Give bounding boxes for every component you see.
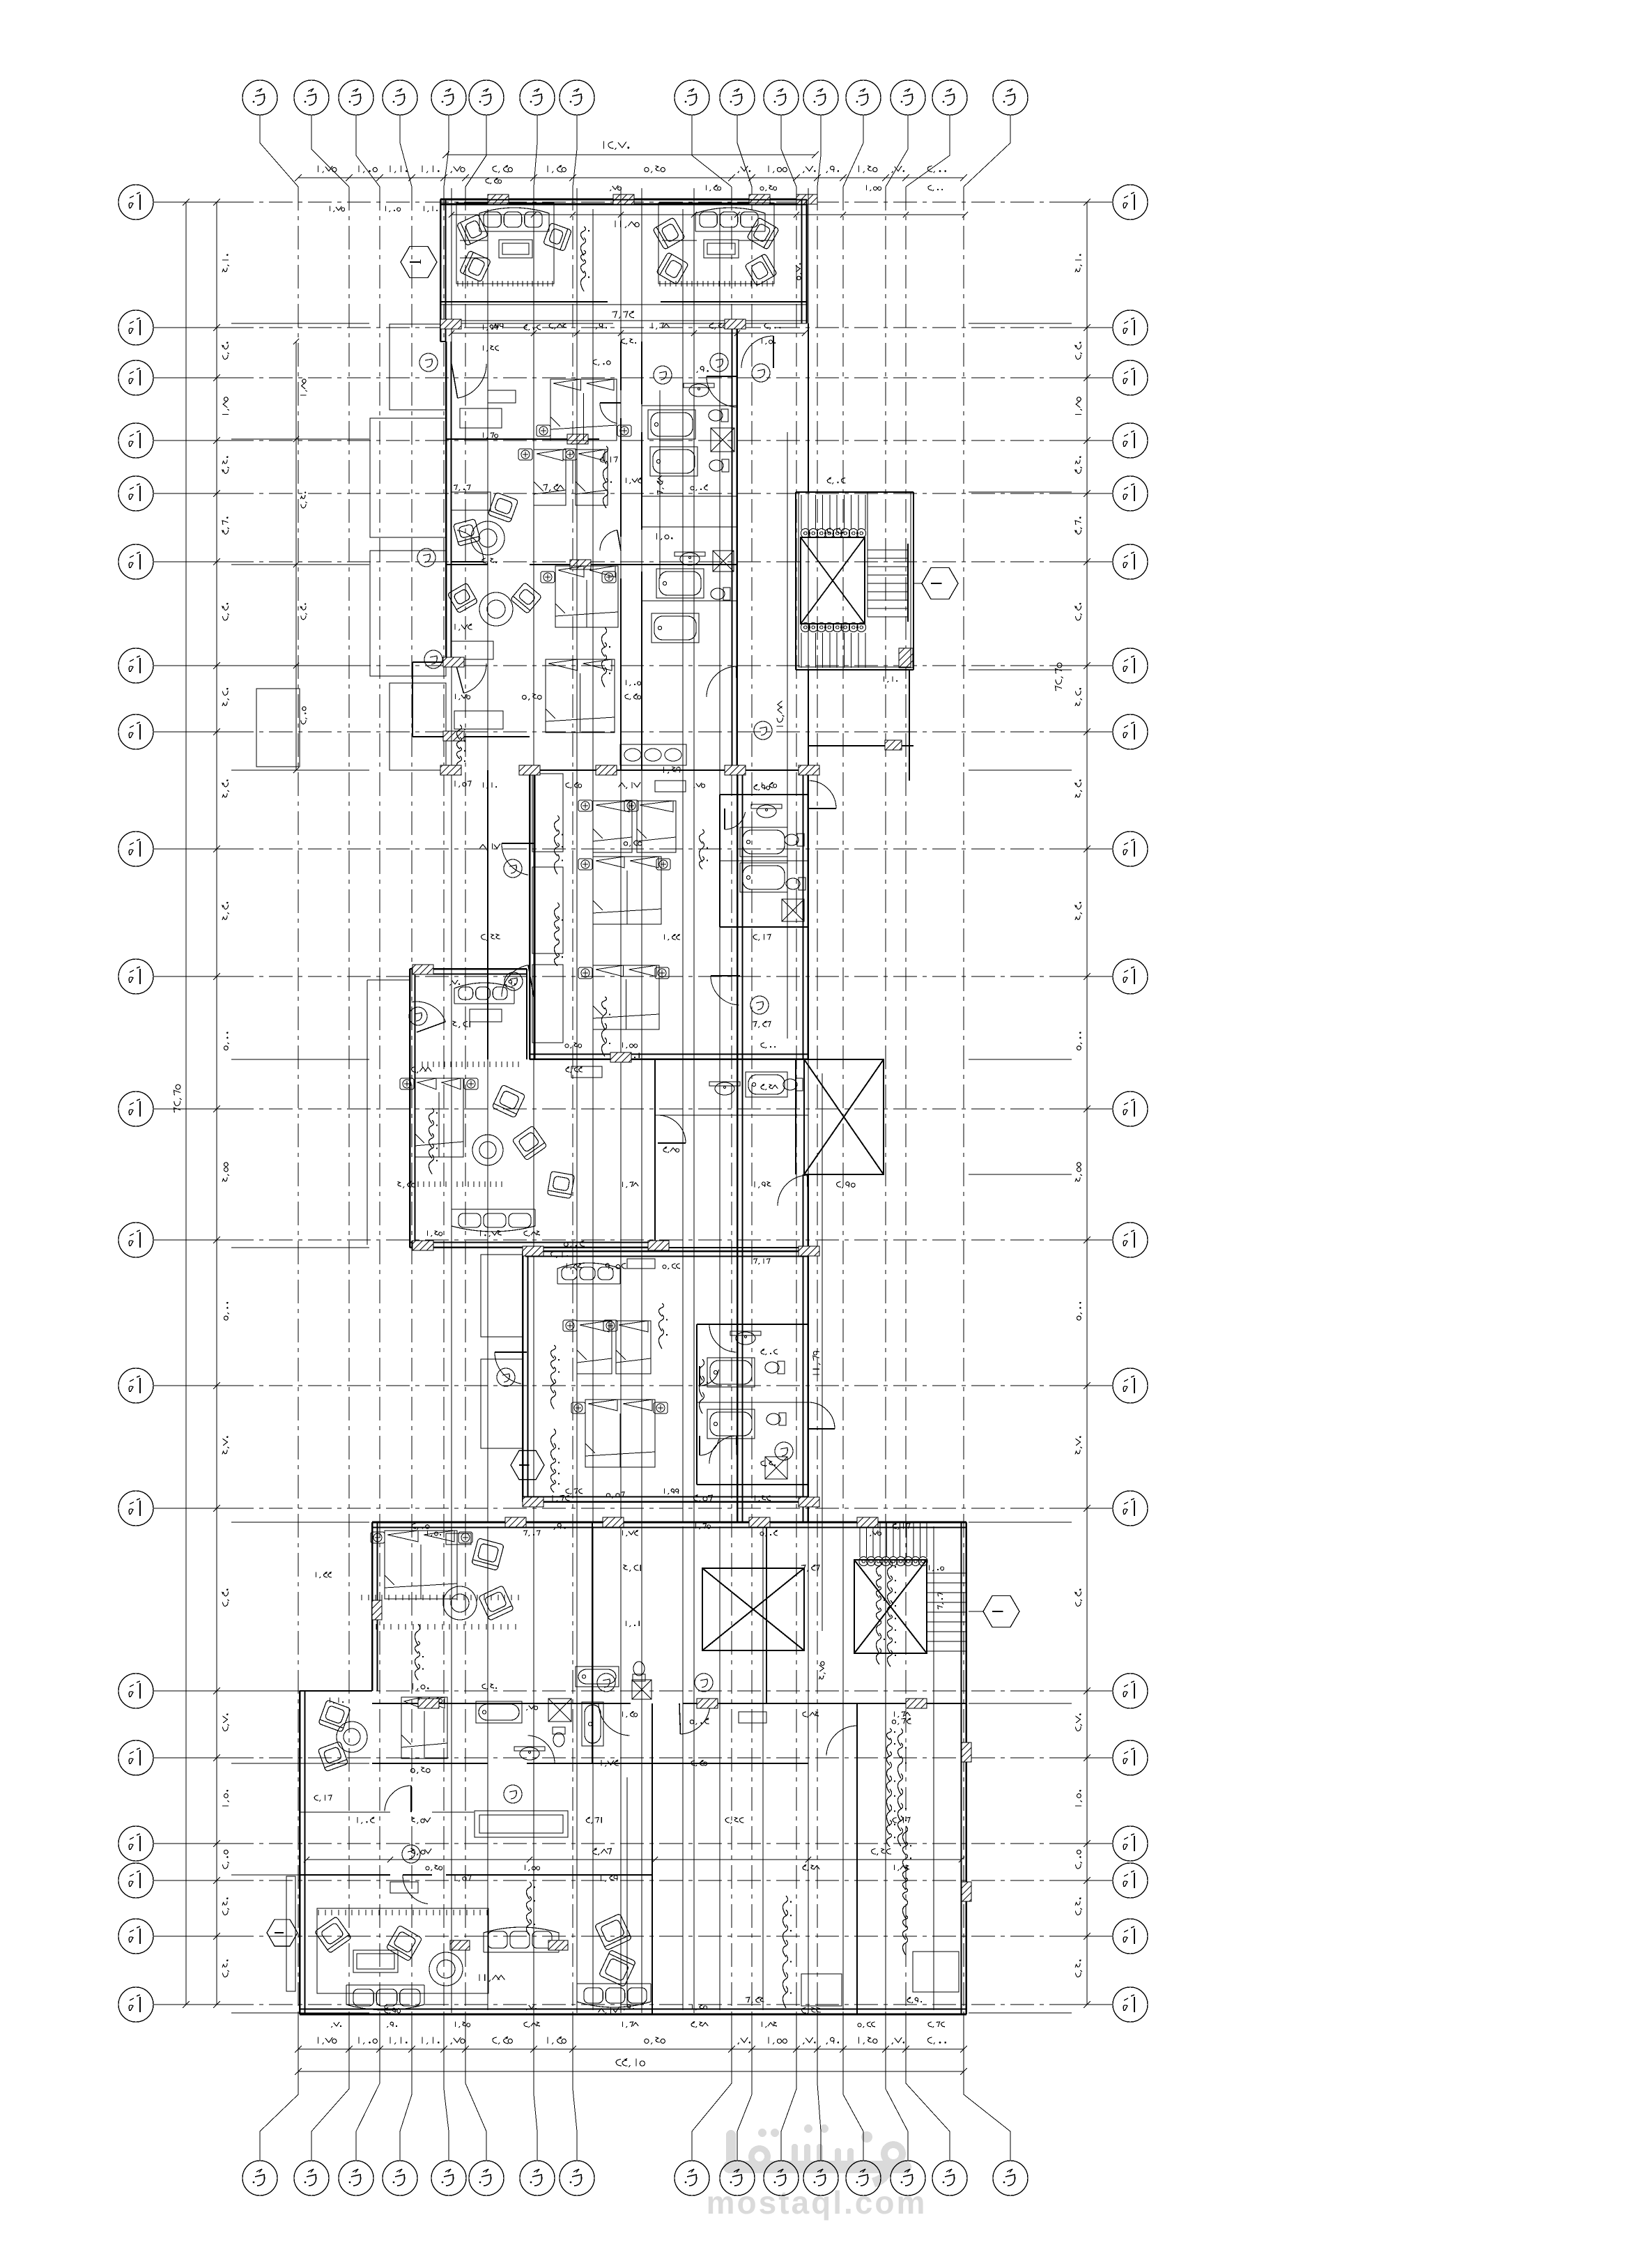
leader line top 7 <box>534 115 537 187</box>
bottom left balcony outline <box>286 1876 295 1991</box>
bottom majlis sofa mid <box>484 1927 559 1952</box>
bottom corridor dim row2 <box>357 1817 374 1824</box>
axis bubble left 18 <box>118 1863 153 1898</box>
top dim label 1,75 <box>318 165 337 173</box>
axis bubble left 9 <box>118 832 153 866</box>
left inner dim 2,05 <box>301 707 307 724</box>
axis bubble left 13 <box>118 1368 153 1403</box>
axis bubble left 6 <box>118 544 153 579</box>
leader line bottom 11 <box>781 2016 796 2161</box>
leader line top 15 <box>906 115 950 187</box>
bottom corridor dim 2,42 <box>872 1848 891 1855</box>
twin2 toilet b <box>766 1413 786 1425</box>
right dim label 4,10 <box>1075 254 1082 272</box>
axis bubble bottom 10 <box>720 2161 755 2196</box>
bottom bath3 tub top <box>576 1666 619 1687</box>
right dim label 4,30 <box>1075 779 1082 797</box>
bottom stair hatch treads <box>860 1522 927 1557</box>
wing2 terrace outline <box>367 979 410 981</box>
grid line vertical 4 <box>411 187 413 2016</box>
corridor door top <box>741 336 773 368</box>
axis bubble bottom 4 <box>383 2161 417 2196</box>
top overall dimension 12,70 <box>442 151 819 158</box>
axis bubble right 20 <box>1113 1987 1148 2022</box>
suite doortag3 <box>424 650 442 668</box>
middle dim 5,25 <box>624 841 642 847</box>
bottom corridor wall y2690 <box>300 1874 652 1876</box>
axis bubble right 4 <box>1113 423 1148 458</box>
corridor spine wall left <box>737 323 738 1522</box>
bottom majlis armchair d <box>599 1949 635 1986</box>
bath1 tub <box>648 410 695 439</box>
bottom dim label ,70 <box>892 2037 904 2044</box>
right dim label 2,30 <box>1075 342 1082 359</box>
bottom majlis sofa left <box>346 1985 424 2010</box>
right dim label 2,40 <box>1075 1897 1082 1915</box>
suite bath partitions <box>642 406 737 601</box>
bath1 tub2 <box>650 447 697 476</box>
twin bed left <box>534 450 566 505</box>
leader line top 13 <box>843 115 863 187</box>
grid line vertical 6 <box>465 187 466 2016</box>
twin2 side tables <box>563 1320 577 1331</box>
double outer walls overlay <box>300 199 966 2014</box>
right dim label 2,40 <box>1075 1959 1082 1977</box>
axis bubble right 2 <box>1113 310 1148 345</box>
bottom majlis coffee table <box>353 1950 398 1972</box>
suite dim 2,00 <box>764 323 780 330</box>
axis bubble bottom 7 <box>520 2161 555 2196</box>
left dim label 4,30 <box>222 902 229 920</box>
middle tub b <box>740 863 787 892</box>
twin2 bath walls <box>697 1324 808 1485</box>
bottom room1 side tables <box>371 1532 385 1543</box>
bottom wall columns <box>505 1517 526 1527</box>
horizontal grid line 18 <box>153 1880 230 1881</box>
bottom stair balusters <box>859 1557 927 1566</box>
leader line bottom 9 <box>692 2016 732 2161</box>
bottom bath2 tub <box>476 1701 522 1723</box>
bottom corridor dim row <box>304 1857 964 1862</box>
bottom room1 fringe extra <box>362 1595 518 1600</box>
bottom dim label 5,45 <box>645 2037 665 2044</box>
horizontal grid line 13 <box>153 1385 230 1386</box>
twin2 twin bed a <box>577 1321 612 1374</box>
bottom partition x1230 <box>856 1703 858 2014</box>
left dim label 2,30 <box>222 342 229 359</box>
majlis dim 6,63 <box>612 311 635 319</box>
top dim label 5,45 <box>645 166 665 173</box>
additional scattered dims <box>330 206 345 213</box>
axis bubble right 8 <box>1113 714 1148 749</box>
left inner dim 2,40 <box>300 492 307 508</box>
top dim label 2,35 <box>493 165 513 173</box>
sitting round table 2 <box>479 592 513 626</box>
left dim label 5,00 <box>224 1032 229 1050</box>
sofa group 2 rug <box>658 203 774 284</box>
bottom majlis armchair b <box>386 1925 422 1961</box>
wing2 label <box>429 1108 438 1174</box>
axis bubble right 17 <box>1113 1826 1148 1861</box>
right overall dim label 62,65 <box>1055 663 1063 691</box>
majlis room label <box>580 227 589 291</box>
axis bubble right 15 <box>1113 1673 1148 1708</box>
suite vertical dim 6,38b <box>657 475 664 495</box>
grid line vertical 14 <box>885 187 886 2016</box>
twin2 terrace outlines <box>481 1255 523 1337</box>
grid line vertical 8 <box>572 187 573 2016</box>
horizontal grid line 2 <box>153 327 230 328</box>
service room label 2 <box>902 1826 911 1955</box>
bottom room1 rug fringe <box>376 1624 516 1630</box>
grid line vertical 15 <box>905 187 907 2016</box>
axis bubble bottom 13 <box>846 2161 881 2196</box>
left dim label 1,50 <box>222 1790 229 1806</box>
bottom corridor dim 4,57 <box>411 1848 432 1855</box>
horizontal grid line 12 <box>153 1239 230 1241</box>
stair extra rails <box>799 492 911 667</box>
wing2 corridor walls <box>655 1059 808 1248</box>
middle top wall column <box>596 765 617 775</box>
suite door2 <box>452 530 484 562</box>
stair side flight treads <box>868 550 908 617</box>
left dim label 3,60 <box>222 516 229 534</box>
wing2 right room fixtures <box>655 1114 808 1116</box>
leader line bottom 3 <box>356 2016 380 2161</box>
bath2 tub2 <box>652 613 699 643</box>
axis bubble left 17 <box>118 1826 153 1861</box>
axis bubble right 18 <box>1113 1863 1148 1898</box>
horizontal grid line 14 <box>153 1508 230 1509</box>
suite dim ,90 <box>596 323 607 330</box>
hex section marker top-left <box>401 247 437 278</box>
sitting chair d <box>447 583 478 613</box>
wing2 corner columns <box>413 965 433 974</box>
bottom bottom wall <box>300 2014 966 2016</box>
axis bubble left 7 <box>118 648 153 683</box>
grid line vertical 13 <box>842 187 844 2016</box>
leader line bottom 7 <box>534 2016 537 2161</box>
leader line bottom 10 <box>737 2016 752 2161</box>
leader line top 14 <box>886 115 908 187</box>
axis bubble right 10 <box>1113 959 1148 994</box>
twin2 labels <box>550 1345 560 1409</box>
waiting room label <box>886 1729 907 1847</box>
middle rooms block walls <box>488 770 808 1059</box>
corridor vertical dim 12,88 <box>776 701 784 727</box>
bath2 tub <box>656 569 704 598</box>
columns top wall <box>488 194 817 204</box>
bottom majlis sofa right <box>577 1984 651 2007</box>
suite label squiggles <box>603 446 612 508</box>
axis bubble top 1 <box>242 80 277 115</box>
bottom dim label ,70 <box>738 2037 750 2044</box>
top dim label 1,35 <box>548 165 566 173</box>
sofa group 1 rug <box>456 203 554 284</box>
leader line top 11 <box>781 115 796 187</box>
axis bubble bottom 16 <box>993 2161 1028 2196</box>
grid line vertical 1 <box>298 187 299 2016</box>
suite corner columns <box>440 319 461 329</box>
left dim label 2,40 <box>222 1897 229 1915</box>
twin2 shower <box>765 1457 787 1479</box>
twin bed right <box>576 450 608 505</box>
twin2 tub b <box>707 1409 755 1439</box>
left dim label 2,30 <box>222 1588 229 1606</box>
extra wardrobe/tv rects <box>488 390 516 403</box>
leader line bottom 1 <box>260 2016 298 2161</box>
bottom room2 round table <box>337 1722 367 1752</box>
bottom majlis dim 11,88 <box>479 1974 505 1982</box>
suite bottom wall <box>413 662 808 770</box>
leader line top 4 <box>400 115 412 187</box>
axis bubble right 16 <box>1113 1740 1148 1775</box>
left dim label 2,30 <box>222 603 229 620</box>
axis bubble bottom 5 <box>431 2161 466 2196</box>
bottom dim label 2,00 <box>927 2037 946 2044</box>
bath1 sink <box>684 383 714 397</box>
twin2 tub a <box>707 1358 755 1387</box>
grid line vertical 16 <box>963 187 964 2016</box>
horizontal grid line 6 <box>153 561 230 562</box>
leader line top 2 <box>311 115 349 187</box>
axis bubble top 7 <box>520 80 555 115</box>
bottom bath2 toilet <box>553 1727 565 1747</box>
axis bubble bottom 6 <box>469 2161 504 2196</box>
wing2 side table rect <box>470 1009 502 1022</box>
bottom majlis round table <box>429 1952 463 1986</box>
axis bubble right 13 <box>1113 1368 1148 1403</box>
bottom left step wall <box>300 1690 372 1692</box>
horizontal grid line 15 <box>153 1690 230 1692</box>
suite block left wall <box>440 342 446 662</box>
leader line top 10 <box>737 115 752 187</box>
leader line top 1 <box>260 115 298 187</box>
leader line top 5 <box>444 115 449 187</box>
bottom partition x850 <box>592 1522 593 1763</box>
leader line bottom 16 <box>964 2016 1010 2161</box>
middle label squiggles <box>554 815 563 874</box>
suite dim 3,45 <box>709 323 727 330</box>
mid elevator shaft <box>796 1059 884 1174</box>
top dim label 1,10 <box>422 165 440 173</box>
suite corridor wall right <box>641 342 642 770</box>
left dim label 4,55 <box>222 1163 229 1182</box>
middle doortag b <box>504 972 523 990</box>
right dim label 1,50 <box>1075 1790 1082 1806</box>
horizontal grid line 3 <box>153 377 230 378</box>
middle shower box <box>782 899 804 921</box>
left overall dimension line <box>183 199 190 2008</box>
bottom partition x936 <box>652 1703 653 2014</box>
top dim label 1,45 <box>858 165 877 173</box>
middle doortag a <box>504 859 522 878</box>
top dim label 2,00 <box>927 166 946 173</box>
left dim label 2,40 <box>222 1959 229 1977</box>
axis bubble bottom 11 <box>764 2161 799 2196</box>
right dim label 3,40 <box>1075 456 1082 473</box>
axis bubble left 1 <box>118 185 153 220</box>
middle door a <box>502 843 534 875</box>
sofa group 2 armchair right <box>747 217 779 250</box>
middle lower side tables <box>578 967 592 979</box>
corridor spine wall right lower <box>808 1174 809 1522</box>
majlis bottom wall <box>440 302 807 323</box>
bath2 toilet <box>711 588 730 600</box>
stair wavy marks over elevator <box>876 1561 896 1666</box>
twin2 twin bed b <box>616 1321 651 1374</box>
stair baluster row top <box>801 529 865 538</box>
horizontal grid line 10 <box>153 976 230 977</box>
middle bath wing walls <box>720 795 808 927</box>
axis bubble top 8 <box>560 80 594 115</box>
twin2 double side tables <box>571 1402 585 1413</box>
leader line top 9 <box>692 115 732 187</box>
wing2 round table <box>472 1135 503 1165</box>
hex marker right stair <box>922 568 958 599</box>
right dim label 2,70 <box>1075 1713 1082 1731</box>
axis bubble bottom 14 <box>891 2161 925 2196</box>
suite interior dim line y478 <box>449 330 808 336</box>
left dim label 4,10 <box>222 254 229 272</box>
axis bubble left 11 <box>118 1091 153 1126</box>
bottom dim label 2,35 <box>493 2037 513 2044</box>
bottom room1 armchair b <box>479 1586 514 1620</box>
wing2 armchair b <box>512 1126 547 1160</box>
left overall dim label 62,65 <box>174 1085 181 1112</box>
suite dim 1,68 <box>652 323 670 329</box>
leader line bottom 13 <box>843 2016 863 2161</box>
bath1 shower box <box>711 428 734 452</box>
middle dim 8,17 <box>619 782 641 789</box>
sitting armchair a <box>488 492 518 523</box>
axis bubble top 14 <box>891 80 925 115</box>
bottom dim label 1,10 <box>390 2037 408 2044</box>
wing2 block walls <box>410 969 655 1248</box>
right dim label 2,05 <box>1075 1850 1082 1869</box>
axis bubble left 12 <box>118 1223 153 1257</box>
suite dim 1,99 <box>488 323 503 329</box>
axis bubble right 5 <box>1113 476 1148 511</box>
bottom bath2 shower <box>548 1699 571 1722</box>
middle twin bed b <box>637 801 676 852</box>
middle tub a <box>740 827 787 857</box>
bottom doors <box>599 1703 631 1736</box>
axis bubble bottom 3 <box>339 2161 373 2196</box>
left dim label 3,40 <box>222 456 229 473</box>
bottom majlis armchair c <box>594 1913 631 1950</box>
right dim label 2,30 <box>1075 603 1082 620</box>
bottom elevator big left <box>702 1568 804 1650</box>
bottom wall y2444 <box>372 1703 966 1704</box>
suite inner vertical dim chain <box>293 339 299 773</box>
suite door3 <box>456 664 486 694</box>
axis bubble top 4 <box>383 80 417 115</box>
twin2 double bed <box>585 1400 655 1467</box>
bottom room2 bed <box>401 1697 447 1759</box>
axis bubble top 16 <box>993 80 1028 115</box>
bottom partition x1100 <box>766 1522 767 1703</box>
bottom left wall lower <box>299 1691 300 2014</box>
bed double suite1 <box>550 379 617 440</box>
bottom majlis label <box>526 1882 535 1936</box>
right dim label 3,60 <box>1075 516 1082 534</box>
right dim label 4,55 <box>1075 1163 1082 1182</box>
wing2 chair c <box>547 1171 574 1198</box>
axis bubble top 5 <box>431 80 466 115</box>
sofa group 1 armchair left <box>456 214 488 245</box>
majlis rug inner lines <box>460 240 773 258</box>
majlis dim 11,85 <box>615 220 639 228</box>
top right stair block walls <box>796 492 914 670</box>
bottom elevator big right <box>854 1560 927 1653</box>
horizontal grid line 1 <box>153 201 230 203</box>
sitting chair b <box>453 519 480 546</box>
majlis dim 5,70 right <box>796 263 802 280</box>
right dim label 5,00 <box>1077 1032 1082 1050</box>
wing2 bed <box>415 1078 463 1157</box>
top dim label ,75 <box>451 166 465 173</box>
suite dim 2,84 <box>549 323 566 329</box>
bottom right wall <box>966 1522 967 2014</box>
bed side tables suite1 <box>537 425 550 436</box>
middle twin bed a <box>593 801 632 852</box>
middle double bed <box>593 857 661 924</box>
left dim label 2,05 <box>222 1850 229 1869</box>
axis bubble top 10 <box>720 80 755 115</box>
suite corridor wall left <box>620 342 622 770</box>
suite sideboard lower <box>454 711 503 729</box>
corridor door tags <box>710 353 728 371</box>
bottom bath3 shower <box>632 1680 652 1699</box>
service dims <box>690 1718 709 1725</box>
middle vanity 3 basins <box>620 744 686 765</box>
leader line top 12 <box>817 115 821 187</box>
bottom dim label 1,35 <box>548 2037 566 2044</box>
grid line vertical 3 <box>379 187 380 2016</box>
axis bubble left 4 <box>118 423 153 458</box>
upper corridor horizontal lines <box>440 305 807 321</box>
suite doortag1 <box>419 353 438 371</box>
bottom room2 armchair a <box>318 1700 350 1732</box>
top wing window sill lines <box>440 203 807 204</box>
middle bath door <box>725 809 746 829</box>
leader line bottom 8 <box>573 2016 577 2161</box>
axis bubble bottom 8 <box>560 2161 594 2196</box>
bottom sideboard long <box>475 1811 568 1837</box>
bottom doortags <box>597 1673 615 1692</box>
right dim label 1,85 <box>1075 397 1082 415</box>
bottom overall dimension 23,15 <box>295 2068 967 2075</box>
left dim label 2,70 <box>222 1713 229 1731</box>
axis bubble left 15 <box>118 1673 153 1708</box>
right dim label 2,30 <box>1075 1588 1082 1606</box>
right dim label 4,30 <box>1075 902 1082 920</box>
top dim label ,90 <box>826 166 839 173</box>
axis bubble top 2 <box>294 80 329 115</box>
bottom corridor dim 3,86 <box>593 1848 612 1855</box>
sofa group 1 armchair left2 <box>459 250 491 282</box>
bath1 toilet <box>709 409 728 422</box>
axis bubble top 15 <box>932 80 967 115</box>
horizontal grid line 9 <box>153 848 230 850</box>
axis bubble right 11 <box>1113 1091 1148 1126</box>
suite bedroom2 wall <box>446 560 737 569</box>
top dim label 1,10 <box>390 165 408 173</box>
axis bubble right 19 <box>1113 1919 1148 1954</box>
bottom stair side treads <box>927 1573 966 1651</box>
suite dim 6,38 <box>543 484 564 491</box>
